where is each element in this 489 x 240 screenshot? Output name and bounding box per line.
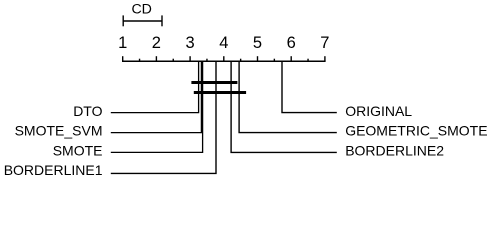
method line DTO	[111, 61, 199, 112]
svg-text:CD: CD	[131, 1, 152, 17]
axis major ticks	[123, 56, 325, 61]
svg-text:ORIGINAL: ORIGINAL	[345, 103, 412, 119]
svg-text:3: 3	[186, 34, 195, 52]
svg-text:5: 5	[253, 34, 262, 52]
svg-text:BORDERLINE2: BORDERLINE2	[345, 142, 444, 158]
axis line	[122, 60, 326, 62]
svg-text:1: 1	[118, 34, 127, 52]
svg-text:GEOMETRIC_SMOTE: GEOMETRIC_SMOTE	[345, 123, 487, 139]
axis numbers	[118, 34, 329, 52]
svg-text:DTO: DTO	[73, 103, 102, 119]
svg-text:BORDERLINE1: BORDERLINE1	[4, 162, 103, 178]
svg-text:4: 4	[219, 34, 228, 52]
svg-text:6: 6	[287, 34, 296, 52]
svg-text:2: 2	[152, 34, 161, 52]
method line ORIGINAL	[282, 61, 337, 112]
svg-text:SMOTE: SMOTE	[53, 142, 103, 158]
CD ruler	[123, 15, 162, 26]
method line SMOTE	[111, 61, 203, 152]
axis minor ticks	[140, 59, 308, 62]
method line BORDERLINE2	[231, 61, 337, 152]
method line GEOMETRIC_SMOTE	[239, 61, 337, 132]
svg-text:7: 7	[320, 34, 329, 52]
clique bar 1	[191, 81, 237, 84]
svg-text:SMOTE_SVM: SMOTE_SVM	[15, 123, 103, 139]
method line SMOTE_SVM	[111, 61, 202, 132]
method line BORDERLINE1	[111, 61, 216, 173]
clique bar 2	[194, 91, 246, 94]
